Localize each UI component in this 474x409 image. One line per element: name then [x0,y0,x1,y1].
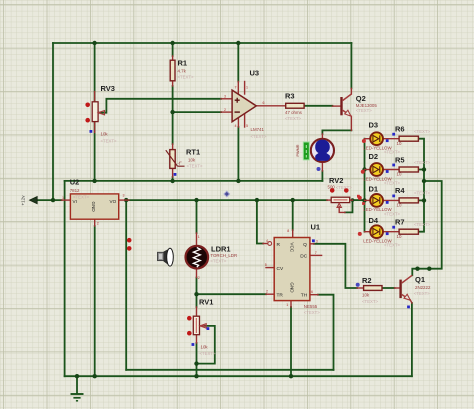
svg-text:U3: U3 [250,68,260,77]
pin stub U2 GND [94,219,96,226]
timer U1 [265,222,320,315]
node ground bus / op-amp pin4 [236,179,240,183]
svg-text:<TEXT>: <TEXT> [101,139,117,144]
pin stub U1 GND [290,301,292,307]
svg-text:5: 5 [246,124,248,128]
pin stub U1 TR [266,293,274,295]
pin stub D2 cathode [384,169,400,171]
pin stub Q1 emitter join [410,300,412,303]
svg-text:Q: Q [303,242,307,248]
pin stub RV2 left [327,199,332,201]
node main rail / U1 GND [289,374,293,378]
pin stub U2 VO [119,199,129,201]
wire LDR1 bottom to node TR [196,278,198,295]
svg-text:7: 7 [235,85,237,89]
pin stub D3 cathode [384,138,400,140]
wire RV3 wiper to op-amp plus input [98,99,221,113]
svg-text:<TEXT>: <TEXT> [356,108,372,113]
wire U1 Q output to R2 [314,244,357,288]
svg-text:3: 3 [224,95,226,99]
svg-text:Q1: Q1 [415,275,425,284]
pin stub D1 cathode [384,199,400,201]
svg-text:CV: CV [277,266,284,272]
svg-text:<TEXT>: <TEXT> [304,310,320,315]
wire TH riser [318,295,334,370]
pin stub U1 DC dangling [310,254,322,256]
pin stub U1 VCC [292,230,294,238]
pin stub U1 TH [310,294,318,296]
pin stub RV2 right [350,199,353,201]
pin stub op-amp balance bottom [244,114,246,128]
svg-text:RV1: RV1 [199,297,213,306]
svg-text:<TEXT>: <TEXT> [384,243,400,248]
svg-text:DC: DC [300,253,307,259]
wire U1 VCC feed [292,200,294,230]
wire RV1 bottom [196,343,198,364]
torch [158,248,174,266]
wire main ground rail bottom [65,375,412,377]
svg-text:4: 4 [266,239,268,243]
node LED bus / D1 [362,198,366,202]
wire right rail up to Q1 emitter [411,303,413,376]
pin stub RT1 bottom [172,168,174,177]
resistor R3 [285,92,304,122]
svg-text:<TEXT>: <TEXT> [414,222,430,227]
wire R2 to Q1 base [382,287,394,289]
svg-text:R5: R5 [395,155,405,164]
pin stub R2 right to Q1 base [395,287,400,289]
node main rail / U2 GND [93,374,97,378]
wire +12v terminal to U2 VI [37,199,62,201]
svg-text:7812: 7812 [70,188,80,193]
svg-text:<TEXT>: <TEXT> [414,129,430,134]
LED D3 [362,121,401,155]
svg-text:<TEXT>: <TEXT> [414,291,430,296]
pin stub R1 top [172,56,174,60]
wire Q2 collector from top rail [350,43,352,88]
pin stub op-amp pin7 [237,82,239,97]
svg-text:10k: 10k [101,132,109,137]
svg-text:2N2222: 2N2222 [415,285,431,290]
svg-text:R2: R2 [362,276,372,285]
wire ground bus left drop [64,181,66,376]
pin stub R1 bottom [172,81,174,86]
svg-text:10: 10 [397,172,402,177]
node ground bus / RT1 [170,179,174,183]
ground [71,394,84,401]
svg-text:6: 6 [263,101,265,105]
pin stub RV1 top [196,307,198,316]
wire U1 reset pin feed [257,200,263,243]
pin stub motor bottom [321,163,323,171]
svg-text:2: 2 [97,222,99,226]
svg-text:R: R [277,242,281,248]
pin stub U2 VI [62,199,71,201]
svg-text:R3: R3 [285,92,295,101]
svg-text:1: 1 [198,235,200,239]
wire node B to op-amp minus input [173,111,221,113]
node LDR1 / TR [194,292,198,296]
svg-text:10k: 10k [188,157,196,162]
wire motor bottom to ground bus [321,171,323,181]
svg-text:R6: R6 [395,125,405,134]
svg-text:4: 4 [235,124,237,128]
pin stub LDR1 bottom [196,270,198,278]
svg-text:<TEXT>: <TEXT> [414,191,430,196]
wire ground stub [76,376,78,393]
resistor R4 [395,186,430,207]
wire op-amp pin4 to ground bus [237,127,239,181]
pin stub Q2 collector [350,88,352,94]
power terminal +12v arrow [21,195,38,206]
svg-text:D2: D2 [369,152,379,161]
transistor Q1 [399,275,431,309]
svg-text:5: 5 [265,263,267,267]
svg-text:10k: 10k [201,344,209,349]
node rail200 / U1 VCC [291,198,295,202]
wire RV3 top branch [94,43,96,102]
svg-text:500: 500 [328,185,336,190]
wire node TR to U1 TR pin [197,293,267,295]
node top rail / R1 [170,41,174,45]
pin stub U1 CV dangling [266,267,274,269]
pin stub RT1 top [172,144,174,150]
wire RV2 wiper tie [345,200,353,212]
svg-text:8: 8 [287,229,289,233]
wire +12V rail Y200 [129,199,327,201]
svg-text:-t°: -t° [178,161,183,166]
pin stub motor top [321,134,323,139]
LED D1 [358,185,401,217]
wire left +12V vertical [52,43,54,200]
svg-text:1: 1 [286,303,288,307]
wire tap to inner rail [125,200,127,370]
svg-text:<TEXT>: <TEXT> [384,180,400,185]
node rail200 / U1 reset [255,198,259,202]
svg-text:<TEXT>: <TEXT> [414,160,430,165]
svg-text:D4: D4 [369,216,379,225]
wire resistor right bus [418,139,424,232]
svg-text:VI: VI [73,199,77,204]
pin stub LDR1 top [196,233,198,245]
wire LED anode bus [364,139,366,232]
pin stub D4 cathode [384,231,400,233]
svg-text:PWMR: PWMR [296,144,300,156]
pin stub Q2 base [332,105,340,107]
wire U1 GND down [290,307,292,376]
potentiometer RV1 [187,297,216,356]
node right bus / link [422,179,426,183]
pin stub U1 Q [310,243,314,245]
pin stub op-amp out [256,105,285,107]
node right bus / R5 [422,167,426,171]
svg-text:NE555: NE555 [304,304,318,309]
resistor R1 [170,59,194,81]
svg-text:D3: D3 [369,121,379,130]
pin stub D2 anode [365,169,370,171]
svg-text:3: 3 [123,194,125,198]
pin stub Q2 emitter [350,116,352,130]
node collector link a [415,267,419,271]
wire RV1 to main rail [196,364,198,377]
svg-text:10k: 10k [362,292,370,297]
LED D2 [361,152,401,186]
wire U2 GND pin down [94,226,96,376]
svg-text:2: 2 [266,290,268,294]
node top rail / op-amp pin7 [236,41,240,45]
wire RV2 right to LED bus [353,199,365,201]
wire op-amp pin7 from top rail [237,43,239,82]
wire top +12V rail [53,42,351,44]
svg-text:<TEXT>: <TEXT> [251,134,267,139]
svg-text:<TEXT>: <TEXT> [200,351,216,356]
svg-text:GND: GND [290,282,295,293]
node ground symbol tap [75,374,79,378]
LED D4 [358,216,401,248]
svg-text:3: 3 [316,240,318,244]
pin stub RV2 wiper [339,207,345,213]
motor fan [311,139,334,171]
svg-text:1: 1 [62,196,64,200]
wire Q2 emitter to motor [322,130,351,134]
pin stub D1 anode [365,199,370,201]
op-amp U3 [224,68,267,139]
fan indicator box [296,142,309,160]
pin stub R2 left [357,287,364,289]
svg-text:7: 7 [315,251,317,255]
resistor R5 [395,155,430,176]
svg-text:R7: R7 [395,218,405,227]
wire R4 right stub [418,199,424,201]
svg-text:RV2: RV2 [329,176,343,185]
potentiometer RV2 [328,176,365,207]
svg-text:2: 2 [224,108,226,112]
pin stub op-amp balance top [244,82,246,95]
wire RV1 top [196,294,198,307]
svg-text:<TEXT>: <TEXT> [178,75,194,80]
pin stub U1 R [263,243,267,245]
LDR1 [127,235,237,280]
marker origin diamond [224,191,230,197]
resistor R6 [395,125,430,146]
pin stub RV3 bottom [94,122,96,133]
svg-text:<TEXT>: <TEXT> [362,299,378,304]
pin stub D3 anode [365,138,370,140]
pin stub op-amp minus [221,111,232,113]
node right bus / R4 [422,198,426,202]
node B R1/wireB [170,110,174,114]
svg-text:<TEXT>: <TEXT> [285,116,301,121]
wire R1 bottom to node B [172,86,174,144]
svg-text:6: 6 [311,290,313,294]
pin stub RV3 top [94,92,96,102]
svg-text:VCC: VCC [290,242,295,252]
svg-text:Q2: Q2 [356,94,366,103]
node rail200 / inner-rail tap [124,198,128,202]
voltage regulator U2 [62,178,125,226]
svg-text:R1: R1 [178,59,188,68]
node LED bus / D2 [362,167,366,171]
svg-text:R4: R4 [395,186,405,195]
wire RV1 wiper loop [197,326,215,364]
svg-text:LM741: LM741 [251,127,265,132]
svg-text:GND: GND [91,202,96,213]
wire R5 right stub [418,169,424,171]
pin stub RV1 bottom [196,335,198,343]
svg-text:<TEXT>: <TEXT> [384,211,400,216]
svg-text:VO: VO [110,199,117,204]
svg-text:TH: TH [301,293,308,299]
wire RT1 bottom to ground bus [172,177,174,181]
node rail200 / RV2 wiper tie [351,198,355,202]
svg-text:<TEXT>: <TEXT> [384,150,400,155]
svg-text:2: 2 [198,276,200,280]
pin stub op-amp pin4 [237,118,239,128]
svg-text:10: 10 [397,141,402,146]
svg-text:1: 1 [246,85,248,89]
svg-text:TORCH_LDR: TORCH_LDR [210,253,237,258]
svg-text:+12v: +12v [21,195,26,206]
node rail200 / LDR1 [194,198,198,202]
potentiometer RV3 [85,84,117,144]
pin stub RV1 wiper [200,325,205,327]
thermistor RT1 [166,148,203,176]
svg-text:47 ohms: 47 ohms [285,110,303,115]
svg-text:U1: U1 [311,222,321,231]
node ground bus / RV3 [92,179,96,183]
svg-text:4.7k: 4.7k [178,69,187,74]
node RV1 bottom [194,361,198,365]
svg-text:10: 10 [397,203,402,208]
svg-text:<TEXT>: <TEXT> [187,164,203,169]
svg-text:<TEXT>: <TEXT> [210,259,226,264]
svg-text:RV3: RV3 [101,84,115,93]
transistor Q2 [340,94,377,116]
svg-text:D1: D1 [369,185,379,194]
wire link to Q1 collector [412,181,441,275]
node +12v terminal [51,198,55,202]
svg-text:TR: TR [277,293,284,299]
wire op-amp out to Q2 base [304,105,332,107]
svg-text:10: 10 [397,234,402,239]
svg-text:U2: U2 [70,178,80,187]
svg-text:<TEXT>: <TEXT> [336,185,352,190]
node main rail / RV1 [194,374,198,378]
wire RV3 bottom to ground bus [94,122,96,181]
wire R1 top branch [172,43,174,56]
resistor R2 [356,276,382,304]
pin stub op-amp plus [221,98,232,100]
pin stub D4 anode [365,231,370,233]
wire inner rail bottom [126,369,333,371]
wire ground bus horizontal [65,180,323,182]
svg-text:RT1: RT1 [186,148,200,157]
wire LDR1 top branch [196,200,198,233]
node top rail / RV3 [92,41,96,45]
node collector link b [427,267,431,271]
resistor R7 [395,218,430,239]
